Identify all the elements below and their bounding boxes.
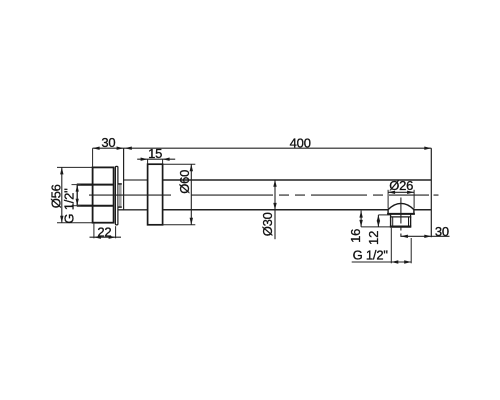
svg-text:16: 16	[348, 229, 363, 243]
svg-text:30: 30	[435, 224, 449, 239]
svg-text:30: 30	[101, 135, 115, 150]
svg-text:22: 22	[97, 224, 111, 239]
svg-text:12: 12	[366, 231, 381, 245]
svg-text:Ø60: Ø60	[177, 170, 192, 194]
svg-text:G 1/2": G 1/2"	[62, 188, 77, 224]
svg-text:Ø26: Ø26	[389, 178, 413, 193]
svg-text:15: 15	[148, 146, 162, 161]
svg-text:Ø30: Ø30	[260, 212, 275, 236]
svg-text:Ø56: Ø56	[49, 184, 64, 208]
svg-text:G 1/2": G 1/2"	[353, 248, 389, 263]
svg-text:400: 400	[290, 136, 311, 151]
